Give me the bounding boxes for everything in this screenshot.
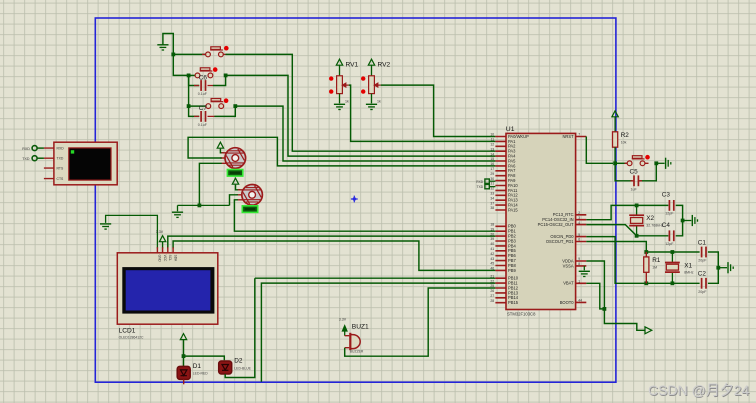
push button (row2) <box>195 68 213 78</box>
junction X2 bottom <box>635 234 639 238</box>
ground rail (motors) <box>178 205 230 211</box>
U1 left pin numbers <box>490 133 494 303</box>
svg-text:BUZZER: BUZZER <box>350 350 364 354</box>
svg-text:22: 22 <box>490 279 494 283</box>
wire left rail btn1-btn2 <box>173 54 188 75</box>
resistor R1 <box>644 257 649 272</box>
svg-text:39: 39 <box>490 237 494 241</box>
crystal X2 <box>629 205 644 235</box>
crystal X1 <box>665 252 680 283</box>
label 3.3V (buzzer) <box>339 318 347 322</box>
label STM32F103C8 <box>507 311 536 316</box>
svg-text:44: 44 <box>578 299 582 303</box>
push button (reset) indicator dot <box>645 155 650 160</box>
wire M2 to U1 PB1 <box>234 200 495 231</box>
svg-text:46: 46 <box>490 267 494 271</box>
svg-text:VSSA: VSSA <box>563 263 574 268</box>
wire RV2 wiper to U1 PA0 <box>381 85 496 136</box>
LCD type label <box>119 335 144 339</box>
capacitor C2 <box>702 278 706 289</box>
LCD pin label VCC <box>163 255 167 262</box>
svg-text:RXD: RXD <box>22 147 30 151</box>
svg-text:C2: C2 <box>698 271 707 278</box>
svg-text:5: 5 <box>578 233 580 237</box>
svg-text:3.3V: 3.3V <box>156 230 164 234</box>
svg-text:25: 25 <box>490 284 494 288</box>
junction X1 ground <box>716 266 720 270</box>
wire X2 ground stub <box>683 220 692 222</box>
ground (LCD) <box>100 224 111 229</box>
label U1 <box>506 126 515 133</box>
svg-text:CTS: CTS <box>57 177 65 181</box>
resistor R2 <box>613 132 618 147</box>
svg-text:20pF: 20pF <box>698 259 707 263</box>
svg-text:BUZ1: BUZ1 <box>352 323 369 330</box>
label BUZ1 <box>352 323 369 330</box>
wire C3/C4 right return <box>676 205 683 235</box>
label TXD (left) <box>22 157 30 161</box>
capacitor C6 value <box>198 92 208 96</box>
svg-text:R1: R1 <box>652 257 661 264</box>
motor M1 rpm display <box>227 170 242 177</box>
svg-text:LCD1: LCD1 <box>119 327 136 334</box>
terminal pin label TXD <box>57 157 64 161</box>
label RV2 <box>378 62 391 69</box>
svg-text:TXD: TXD <box>57 157 64 161</box>
power arrow buzzer <box>342 326 347 336</box>
push button (top, row1) <box>206 47 224 57</box>
motor M2 pin stubs <box>237 190 243 200</box>
origin marker <box>351 196 358 203</box>
power arrow right (VDDA) <box>645 327 652 334</box>
svg-text:VCC: VCC <box>163 255 167 262</box>
wire PC14 to X2 top rail <box>586 205 668 219</box>
wire C6 right lead <box>213 75 226 85</box>
C5 lead stubs <box>631 180 643 182</box>
svg-text:OLED1286412C: OLED1286412C <box>119 335 144 339</box>
terminal pin label RXD <box>57 147 65 151</box>
svg-text:1M: 1M <box>652 265 657 269</box>
label D1 <box>193 363 202 370</box>
capacitor C3 <box>669 200 673 211</box>
wire btn3 left link <box>189 105 206 107</box>
terminal node RXD <box>32 146 37 151</box>
svg-text:43: 43 <box>490 257 494 261</box>
label R1 <box>652 257 661 264</box>
wire D1 cathode stub <box>183 380 185 385</box>
svg-text:18: 18 <box>490 223 494 227</box>
wire LCD SDA to U1 PB9 <box>173 241 495 270</box>
ground (button cluster) <box>157 45 168 50</box>
wire left rail btn2-btn3 <box>188 75 190 106</box>
push button (row2) indicator dot <box>213 67 218 72</box>
potentiometer RV1 <box>337 76 349 94</box>
svg-text:8MHz: 8MHz <box>684 270 694 274</box>
svg-text:X1: X1 <box>684 262 692 269</box>
wire ground to button row 1 <box>163 34 173 55</box>
capacitor C4 <box>669 230 673 241</box>
junction ground rail / M1 <box>198 204 202 208</box>
wire reset-right to ground <box>656 162 664 164</box>
svg-text:TXD: TXD <box>477 185 484 189</box>
capacitor C5 <box>634 175 638 186</box>
svg-text:U1: U1 <box>506 126 515 133</box>
value RV2 1k <box>377 100 381 104</box>
svg-text:R2: R2 <box>621 132 630 139</box>
svg-text:3: 3 <box>578 216 580 220</box>
svg-text:26: 26 <box>490 289 494 293</box>
svg-text:VBAT: VBAT <box>563 281 574 286</box>
power arrow above RV2 <box>368 59 374 76</box>
wire btn2 to U1 PA4 <box>226 75 496 156</box>
svg-text:BOOT0: BOOT0 <box>560 300 575 305</box>
RV2 adjust dot up <box>361 76 365 80</box>
capacitor C3 label <box>662 191 671 198</box>
label R2 <box>621 132 630 139</box>
svg-text:19: 19 <box>490 227 494 231</box>
svg-text:TXD: TXD <box>22 157 30 161</box>
svg-text:27: 27 <box>490 294 494 298</box>
wire btn1 to U1 PA3 <box>226 54 496 151</box>
svg-text:11: 11 <box>491 138 495 142</box>
label X1 <box>684 262 692 269</box>
power arrow above R2 <box>612 111 618 132</box>
label TXD at U1 <box>477 185 484 189</box>
wire RXD terminal <box>37 147 44 149</box>
sheet border <box>95 18 616 382</box>
svg-text:1: 1 <box>578 280 580 284</box>
ground (X2) <box>692 215 697 226</box>
node TXD at U1 <box>485 184 496 188</box>
wire OSCOUT to X1 top rail <box>586 242 699 253</box>
label RXD (left) <box>22 147 30 151</box>
junction X1 top <box>671 250 675 254</box>
label D2 type <box>234 366 251 370</box>
svg-text:1uF: 1uF <box>631 187 638 191</box>
junction X2 ground <box>681 219 685 223</box>
svg-text:30: 30 <box>490 177 494 181</box>
wire reset node to button <box>615 162 627 164</box>
value X2 32.768kHz <box>646 223 663 227</box>
microcontroller U1 STM32F103C8 body <box>506 133 576 309</box>
svg-text:3.3V: 3.3V <box>339 318 347 322</box>
capacitor C6 label <box>199 74 208 81</box>
power arrow above D1 <box>180 334 186 340</box>
wire M1 to ground rail <box>199 163 221 205</box>
svg-text:RTS: RTS <box>57 167 64 171</box>
svg-text:RV2: RV2 <box>378 62 391 69</box>
svg-text:8: 8 <box>578 262 580 266</box>
wire OSCIN to X1 bottom rail <box>586 237 699 284</box>
wire btn1 left stub <box>173 53 205 55</box>
U1 right pin names <box>538 134 575 305</box>
wire VBAT join <box>586 283 604 309</box>
svg-text:PB15: PB15 <box>508 300 519 305</box>
svg-text:C6: C6 <box>199 74 208 81</box>
svg-text:PB9: PB9 <box>508 268 516 273</box>
wire C5 left lead <box>615 163 632 181</box>
svg-text:10k: 10k <box>621 141 627 145</box>
svg-text:12pF: 12pF <box>665 242 674 246</box>
svg-text:CSDN @月夕24: CSDN @月夕24 <box>648 382 750 398</box>
svg-text:C1: C1 <box>698 239 707 246</box>
svg-text:29: 29 <box>490 172 494 176</box>
svg-text:SDA: SDA <box>173 255 177 262</box>
terminal node TXD <box>32 156 37 161</box>
svg-text:STM32F103C8: STM32F103C8 <box>507 311 536 316</box>
svg-text:C5: C5 <box>630 169 639 176</box>
svg-text:20: 20 <box>490 232 494 236</box>
capacitor C4 value <box>665 242 674 246</box>
wire D1/D2 anode net <box>184 340 225 366</box>
wire C7 right lead <box>214 106 235 116</box>
label X2 <box>646 215 654 222</box>
svg-text:OSCOUT_PD1: OSCOUT_PD1 <box>546 239 574 244</box>
push button (reset) <box>627 156 645 166</box>
junction node btn3-right <box>233 104 237 108</box>
wire TXD terminal <box>37 157 44 159</box>
wire buzzer to U1 PB12 <box>345 288 496 356</box>
ground below RV1 <box>334 104 345 109</box>
LCD pin label SCL <box>168 255 172 261</box>
wire btn2 left link <box>189 74 196 76</box>
label 3.3V (LCD) <box>156 230 164 234</box>
svg-text:0.1uF: 0.1uF <box>198 92 208 96</box>
svg-text:4: 4 <box>578 221 580 225</box>
LCD pin stubs <box>157 247 173 253</box>
svg-text:20pF: 20pF <box>698 290 707 294</box>
svg-text:1k: 1k <box>377 100 381 104</box>
watermark CSDN <box>648 382 750 399</box>
svg-text:PA15: PA15 <box>508 207 518 212</box>
RV2 adjust dot down <box>361 89 365 93</box>
power arrow above motor M1 <box>217 142 223 148</box>
motor M1 <box>225 148 246 169</box>
wire NRST to reset node <box>586 137 613 164</box>
capacitor C1 <box>702 247 706 258</box>
svg-text:21: 21 <box>490 274 494 278</box>
capacitor C2 value <box>698 290 707 294</box>
LCD1 module <box>117 253 218 324</box>
svg-text:X2: X2 <box>646 215 654 222</box>
svg-text:1k: 1k <box>345 100 349 104</box>
RV1 adjust dot up <box>329 76 333 80</box>
label D2 <box>234 358 243 365</box>
wire PC15 to X2 bottom rail <box>586 225 668 236</box>
potentiometer RV2 <box>369 76 381 94</box>
junction R1 bottom <box>644 281 648 285</box>
wire U1 PB11 to sheet edge <box>261 283 495 382</box>
svg-text:RXD: RXD <box>476 180 484 184</box>
junction node btn2-right <box>224 74 228 78</box>
wire VSSA to ground <box>583 266 585 270</box>
junction reset-right <box>654 161 658 165</box>
ground (motor rail) <box>172 212 183 217</box>
svg-text:PC15-OSC32_OUT: PC15-OSC32_OUT <box>538 222 574 227</box>
wire VDDA to power arrow <box>586 261 644 330</box>
ground (X1) <box>728 262 733 273</box>
LCD pin label SDA <box>173 255 177 262</box>
value R1 1M <box>652 265 657 269</box>
R1 leads <box>645 252 647 283</box>
junction R1 top <box>644 250 648 254</box>
label D1 type <box>193 372 208 376</box>
svg-text:RXD: RXD <box>57 147 65 151</box>
capacitor C7 <box>201 111 205 122</box>
junction VBAT/VDDA <box>603 307 607 311</box>
wire LCD SCL to U1 PB2 <box>168 236 496 248</box>
capacitor C1 label <box>698 239 707 246</box>
capacitor C5 label <box>630 169 639 176</box>
svg-text:31: 31 <box>490 182 494 186</box>
value X1 8MHz <box>684 270 694 274</box>
wire M1 to U1 PA6 <box>188 137 495 166</box>
power arrow above motor M2 <box>232 178 238 184</box>
junction reset node <box>613 161 617 165</box>
value RV1 1k <box>345 100 349 104</box>
svg-text:6: 6 <box>578 238 580 242</box>
wire M2 power arrow stem <box>236 185 241 190</box>
svg-text:28: 28 <box>490 299 494 303</box>
node RXD at U1 <box>485 179 496 183</box>
svg-text:GND: GND <box>158 255 162 263</box>
motor M1 pin stubs <box>220 153 226 164</box>
svg-text:RV1: RV1 <box>346 62 359 69</box>
svg-text:33: 33 <box>490 192 494 196</box>
junction D1 anode <box>182 354 186 358</box>
ground below RV2 <box>366 104 377 109</box>
wire X1 ground stub <box>718 267 727 269</box>
push button (row3) indicator dot <box>224 98 229 103</box>
value R2 10k <box>621 141 627 145</box>
junction node btn3-left <box>187 104 191 108</box>
svg-text:15: 15 <box>490 157 494 161</box>
U1 right pin stubs <box>576 137 587 303</box>
svg-text:LED-BLUE: LED-BLUE <box>234 366 251 370</box>
svg-text:9: 9 <box>578 257 580 261</box>
LCD pin label GND <box>158 255 162 263</box>
motor M2 rpm display <box>242 206 257 213</box>
capacitor C7 label <box>199 105 208 112</box>
svg-text:7: 7 <box>578 133 580 137</box>
svg-text:40: 40 <box>490 242 494 246</box>
svg-text:16: 16 <box>490 162 494 166</box>
push button (row3) <box>206 99 224 109</box>
buzzer BUZ1 <box>345 333 361 350</box>
wire C1/C2 right return <box>708 252 718 283</box>
capacitor C6 <box>201 80 205 91</box>
svg-text:13: 13 <box>490 147 494 151</box>
ground (VSSA) <box>579 271 590 276</box>
label BUZZER <box>350 350 364 354</box>
wire LCD GND to ground <box>106 215 158 248</box>
terminal pin label RTS <box>57 167 64 171</box>
LED D2 (blue) <box>219 361 232 374</box>
wire C7 left lead <box>189 106 200 116</box>
svg-text:LED-RED: LED-RED <box>193 372 208 376</box>
junction node btn1-left <box>171 53 175 57</box>
junction X2 top <box>635 204 639 208</box>
wire RV1 wiper to U1 PA1 <box>349 85 496 141</box>
wire D2 cathode to U1 PB10 <box>225 278 495 377</box>
RV2 bottom stub <box>371 94 373 104</box>
svg-text:10: 10 <box>490 133 494 137</box>
svg-text:12: 12 <box>490 143 494 147</box>
label LCD1 <box>119 327 136 334</box>
svg-text:C7: C7 <box>199 105 208 112</box>
U1 left pin stubs <box>495 137 506 303</box>
wire C5 right lead <box>640 163 656 181</box>
U1 right pin numbers <box>578 133 582 303</box>
svg-text:0.1uF: 0.1uF <box>198 123 208 127</box>
power arrow above RV1 <box>336 59 342 76</box>
wire M1 power arrow stem <box>220 149 223 153</box>
push button (top, row1) indicator dot <box>224 46 229 51</box>
svg-text:41: 41 <box>490 247 494 251</box>
ground (reset) <box>666 158 671 169</box>
capacitor C1 value <box>698 259 707 263</box>
svg-text:37: 37 <box>490 201 494 205</box>
motor M2 <box>242 185 263 206</box>
svg-text:45: 45 <box>490 262 494 266</box>
virtual terminal instrument <box>54 142 117 185</box>
svg-text:42: 42 <box>490 252 494 256</box>
wire btn3 to U1 PA5 <box>235 106 495 161</box>
svg-text:38: 38 <box>490 206 494 210</box>
label RV1 <box>346 62 359 69</box>
junction node btn2-left <box>187 74 191 78</box>
label RXD at U1 <box>476 180 484 184</box>
svg-text:C3: C3 <box>662 191 671 198</box>
junction X1 bottom <box>671 281 675 285</box>
svg-text:2: 2 <box>578 211 580 215</box>
svg-text:34: 34 <box>490 196 494 200</box>
svg-text:D2: D2 <box>234 358 243 365</box>
capacitor C2 label <box>698 271 707 278</box>
svg-text:14: 14 <box>490 152 494 156</box>
RV1 bottom stub <box>339 94 341 104</box>
power arrow LCD VCC <box>159 236 165 249</box>
wire C6 left lead <box>189 75 200 85</box>
svg-text:C4: C4 <box>662 222 671 229</box>
wire M2 mid pin to ground rail <box>230 195 238 206</box>
svg-text:SCL: SCL <box>168 255 172 261</box>
capacitor C3 value <box>665 212 674 216</box>
capacitor C7 value <box>198 123 208 127</box>
svg-text:17: 17 <box>490 167 494 171</box>
RV1 adjust dot down <box>329 89 333 93</box>
wire R2 to reset node <box>614 147 616 163</box>
terminal pin label CTS <box>57 177 65 181</box>
capacitor C4 label <box>662 222 671 229</box>
LED D1 (red) <box>177 366 190 379</box>
svg-text:12pF: 12pF <box>665 212 674 216</box>
capacitor C5 value <box>631 187 638 191</box>
terminal pin stubs <box>44 148 54 179</box>
svg-text:D1: D1 <box>193 363 202 370</box>
U1 left pin names <box>508 134 529 305</box>
svg-text:NRST: NRST <box>562 134 574 139</box>
